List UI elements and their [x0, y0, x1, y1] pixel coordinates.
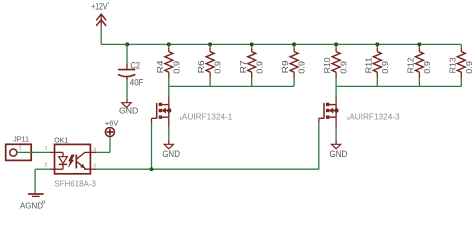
svg-text:R12: R12: [407, 57, 416, 73]
svg-text:SFH618A-3: SFH618A-3: [54, 179, 96, 189]
svg-text:2: 2: [45, 162, 48, 168]
svg-text:R13: R13: [448, 57, 457, 73]
svg-text:0.9: 0.9: [423, 61, 432, 74]
svg-text:0.9: 0.9: [172, 61, 181, 74]
svg-text:R11: R11: [364, 57, 373, 73]
svg-text:R10: R10: [323, 57, 332, 73]
svg-text:R4: R4: [156, 60, 165, 74]
svg-text:R7: R7: [239, 60, 248, 74]
svg-text:JP11: JP11: [13, 137, 29, 144]
svg-text:OK1: OK1: [54, 136, 68, 144]
svg-text:GND: GND: [119, 106, 138, 116]
svg-text:AUIRF1324-1: AUIRF1324-1: [182, 111, 233, 121]
svg-text:0.9: 0.9: [298, 61, 307, 74]
svg-text:+12V: +12V: [91, 2, 108, 12]
svg-text:GND: GND: [330, 149, 348, 160]
svg-text:AUIRF1324-3: AUIRF1324-3: [349, 111, 400, 121]
svg-text:+6V: +6V: [105, 119, 118, 128]
svg-text:3: 3: [93, 163, 96, 169]
svg-text:1: 1: [45, 146, 48, 152]
svg-text:0.9: 0.9: [381, 61, 390, 74]
svg-text:R6: R6: [197, 60, 206, 74]
svg-text:R9: R9: [281, 60, 290, 74]
svg-text:0.9: 0.9: [340, 61, 349, 74]
svg-text:0.9: 0.9: [214, 61, 223, 74]
svg-text:AGND: AGND: [20, 200, 43, 210]
svg-text:4: 4: [93, 147, 96, 153]
svg-text:C2: C2: [130, 59, 140, 70]
svg-text:40F: 40F: [130, 76, 144, 87]
svg-text:0.9: 0.9: [465, 61, 474, 74]
svg-text:0.9: 0.9: [255, 61, 264, 74]
svg-text:GND: GND: [162, 149, 180, 160]
svg-text:1: 1: [19, 146, 22, 152]
